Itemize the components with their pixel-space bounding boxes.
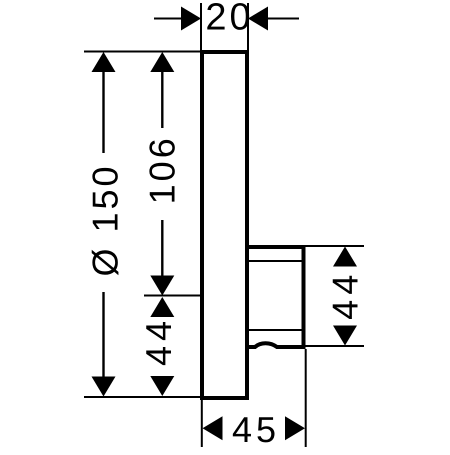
extension line top-left horizontal [84,51,200,53]
dim 150 bottom arrow [92,377,116,397]
dim 20 left arrow [181,7,201,31]
plate body (side view outer rectangle) [202,52,247,398]
dim 20 extension line left vertical [200,3,202,50]
dim 45 left extension line vertical [201,399,203,447]
dim 20 left tail line [154,18,182,20]
dim 45 right extension line vertical [305,349,307,447]
dim 20 extension line right vertical [247,3,249,50]
svg-text:44: 44 [325,270,366,320]
dim 20 right tail line [267,18,299,20]
dim 45 left arrow [203,416,223,440]
extension line bottom-left horizontal [84,396,200,398]
dim 106 bottom arrow [150,276,174,296]
svg-text:Ø 150: Ø 150 [85,163,126,276]
housing inner groove line top [248,260,302,262]
dim 44 right bottom arrow [333,326,357,346]
svg-text:20: 20 [205,0,253,39]
dim 106 lower stem [161,220,163,277]
dim 44 right bottom extension line [305,345,364,347]
dim 150 top arrow [92,52,116,72]
svg-text:45: 45 [232,409,280,450]
dim 45 right arrow [285,416,305,440]
dim 44 left top arrow [150,297,174,317]
dim 20 right arrow [248,7,268,31]
dim 44 right top extension line [305,245,364,247]
dim 150 upper stem [102,70,104,153]
dim 150 lower stem [102,292,104,378]
svg-text:44: 44 [138,316,179,366]
svg-text:106: 106 [142,135,183,204]
housing inner groove line bottom [248,329,302,331]
extension line middle-left horizontal [144,295,201,297]
dim 44 left bottom arrow [150,376,174,396]
dim 106 top arrow [150,52,174,72]
valve housing protrusion outline [247,247,304,347]
dim 44 right top arrow [333,247,357,267]
dim 106 upper stem [161,70,163,128]
